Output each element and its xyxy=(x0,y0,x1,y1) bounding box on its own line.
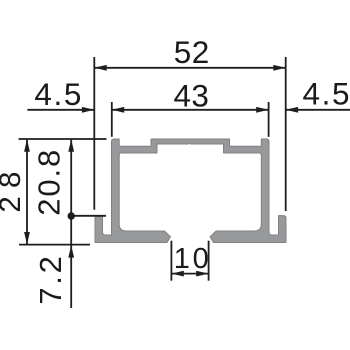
svg-text:52: 52 xyxy=(174,34,210,70)
svg-text:43: 43 xyxy=(173,78,209,114)
svg-text:4.5: 4.5 xyxy=(34,76,81,112)
svg-text:4.5: 4.5 xyxy=(303,76,350,112)
svg-text:7.2: 7.2 xyxy=(33,256,68,305)
svg-text:20.8: 20.8 xyxy=(31,150,66,216)
